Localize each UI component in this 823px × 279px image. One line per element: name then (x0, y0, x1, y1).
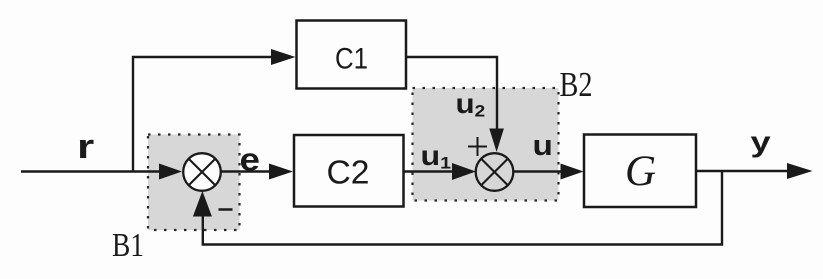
dotted block B1 (shaded region around first summing junction) (148, 135, 240, 231)
plus sign at B2 (468, 137, 487, 156)
block G (584, 135, 696, 208)
arrowhead down into summing junction B2 (489, 129, 504, 153)
block C1 (297, 21, 407, 89)
summing junction B1 (circle with cross) (183, 153, 221, 191)
arrowhead into C2 (269, 164, 293, 180)
summing junction B2 (circle with cross) (476, 153, 514, 191)
arrowhead into C1 (271, 49, 296, 65)
svg-text:C2: C2 (327, 154, 370, 191)
block C2 (294, 135, 404, 207)
svg-text:r: r (77, 128, 94, 166)
svg-text:G: G (625, 148, 656, 195)
arrowhead into summing junction B2 (452, 163, 476, 180)
svg-text:e: e (240, 143, 260, 178)
wire: branch up to C1 (133, 57, 272, 172)
wire: u1 from C2 to summing junction B2 (404, 170, 454, 172)
svg-text:B2: B2 (560, 65, 593, 104)
svg-text:B1: B1 (112, 227, 144, 264)
wire: input r main line (21, 170, 161, 172)
svg-text:C1: C1 (335, 43, 368, 76)
minus sign at B1 (219, 208, 233, 211)
arrowhead output y (787, 163, 813, 179)
wire: output y (696, 170, 789, 172)
svg-text:y: y (751, 125, 772, 158)
dotted block B2 (shaded region around second summing junction) (413, 88, 559, 201)
wire: e from B1 to C2 (220, 170, 270, 172)
svg-text:u: u (533, 129, 553, 161)
wire: feedback line (203, 171, 722, 245)
wire: C1 output down to summing junction B2 (406, 57, 497, 130)
arrowhead into G (561, 164, 584, 180)
arrowhead into summing junction B1 (159, 164, 182, 180)
arrowhead up into summing junction B1 (193, 191, 212, 217)
wire: u from B2 to G (513, 170, 562, 172)
